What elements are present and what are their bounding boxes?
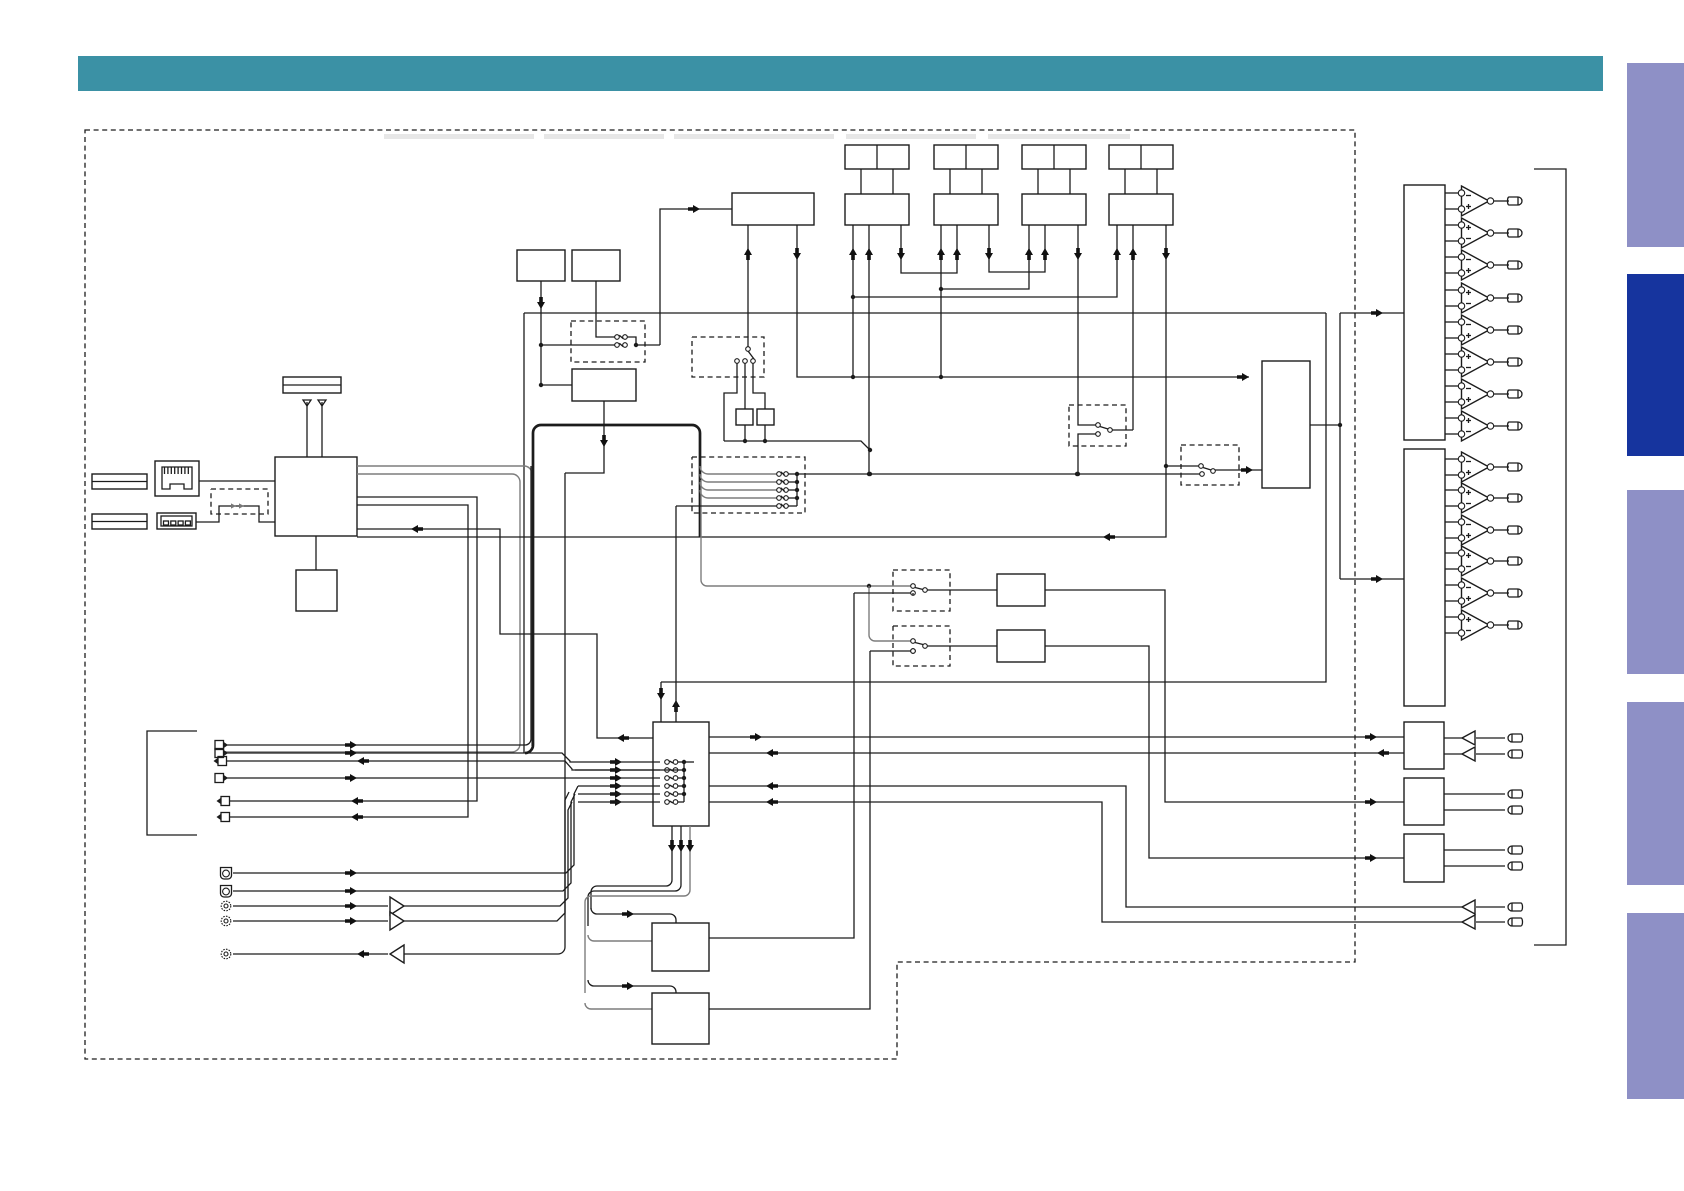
HDMI in 4 wire to AV switch (226, 777, 660, 779)
thick digital audio pipe (525, 425, 700, 753)
wire SoC to sub-module (315, 536, 317, 570)
G2 pin3 rec down to G3 pin2 (989, 225, 1045, 272)
small box B1 (736, 409, 753, 425)
speaker terminal y=530 (1508, 526, 1523, 534)
speaker amp channel y=265 (1445, 256, 1458, 258)
module G2 cassette pair box (934, 145, 998, 169)
main bus top line (524, 312, 1326, 314)
gray feed into box P (588, 935, 652, 941)
G3 pin3 down to S3 (1077, 225, 1079, 423)
SoC HDMI out2 wire (229, 505, 468, 817)
SW-B output to DAC2 (927, 645, 997, 647)
analog in row 2 triangle (1462, 915, 1475, 929)
X2 outputs (1444, 793, 1505, 795)
gray drop to SW-B (869, 586, 913, 641)
matrix row 5 from AV switch riser (676, 505, 777, 507)
amp feed riser (1339, 313, 1341, 579)
S3 contact A wire (1078, 423, 1096, 425)
S2 output rail with diagonal (724, 441, 870, 452)
SoC gray out 2 (225, 474, 520, 752)
analog in row 1 terminal (1508, 903, 1523, 911)
DAC1 output wire (1045, 590, 1404, 802)
X1 triangle out top (1462, 731, 1475, 745)
faint greeked caption (384, 134, 1130, 139)
coax in 1 connector (221, 901, 231, 911)
analog in row 2 terminal (1508, 918, 1523, 926)
junction REC line at G1 (851, 375, 855, 379)
speaker terminal y=467 (1508, 463, 1523, 471)
bus left drop (523, 313, 525, 753)
feed into box Q (588, 980, 676, 993)
dashed switch box SW-B (893, 626, 950, 666)
module G3 connector stubs (1037, 169, 1039, 194)
HDMI out 3 connector (218, 757, 227, 766)
pipe branch to monitor line (699, 460, 701, 537)
selector box M (1262, 361, 1310, 488)
wire RJ45 to SoC (199, 480, 275, 482)
HDMI in 1 connector (215, 741, 224, 750)
pipe branch to DAC selects (701, 480, 913, 586)
HDMI in 2 connector (215, 749, 224, 758)
USB port connector (157, 513, 196, 529)
HDMI out 3 wire from trunk (226, 761, 678, 770)
S2 pivot and blade (746, 347, 751, 352)
B1 to rail (744, 425, 746, 441)
dashed switch box S4 (1181, 445, 1239, 485)
sidebar tab 5 (1627, 913, 1684, 1099)
speaker terminal y=498 (1508, 494, 1523, 502)
feed into box P (591, 908, 676, 923)
DSP pin up from S2 (747, 225, 749, 349)
dashed switch box S3 (1069, 405, 1126, 446)
S2 contact1 wire stepped (724, 363, 737, 441)
G1 pin1 riser (play L) (852, 225, 854, 377)
module G4 connector stubs (1124, 169, 1126, 194)
amp1 feed (1340, 312, 1404, 314)
optical in 1 wire (233, 786, 578, 873)
zone out box X1 (1404, 722, 1444, 769)
antenna bar box (283, 377, 341, 393)
G4 pin2 riser from S3 (1132, 225, 1134, 430)
box M output to amp feeds (1310, 424, 1340, 426)
dashed switch box S1 (571, 321, 645, 362)
wire USB to SoC stepped (196, 506, 275, 522)
junction W1-lower box (539, 383, 543, 387)
speaker amp channel y=201 (1445, 192, 1458, 194)
speaker bracket (1534, 169, 1566, 945)
X1 terminal top (1508, 734, 1523, 742)
SW-A contacts (911, 584, 916, 589)
speaker amp channel y=426 (1445, 417, 1458, 419)
SoC gray out 1 (357, 466, 532, 746)
zone return riser B (870, 650, 911, 652)
coax in 2 connector (221, 916, 231, 926)
AV switch input right 3 (709, 802, 1462, 922)
main SoC box (275, 457, 357, 536)
dashed isolator box (211, 489, 268, 514)
antenna symbol left (303, 400, 311, 406)
riser to DSP input (660, 209, 732, 345)
speaker amp channel y=593 (1445, 584, 1458, 586)
DAC2 box (997, 630, 1045, 662)
module G2 connector stubs (949, 169, 951, 194)
wire W1 down with arrow (540, 281, 542, 385)
input group bracket (147, 731, 197, 835)
speaker amp channel y=467 (1445, 458, 1458, 460)
audio out connector (221, 949, 231, 959)
G1 pin3 rec down to G2 (901, 225, 957, 273)
matrix collector (796, 474, 798, 506)
S2 contact3 wire stepped to box B2 (753, 363, 765, 409)
SW-A output to DAC1 (927, 589, 997, 591)
power amp block 2 (1404, 449, 1445, 706)
matrix row 3 (700, 482, 777, 490)
speaker terminal y=265 (1508, 261, 1523, 269)
module G3 cassette pair box (1022, 145, 1086, 169)
speaker terminal y=233 (1508, 229, 1523, 237)
dashed switch box SW-A (893, 570, 950, 611)
speaker amp channel y=498 (1445, 489, 1458, 491)
HDMI out main connector (221, 797, 230, 806)
module G2 main box (934, 194, 998, 225)
SW-B contacts (911, 639, 916, 644)
SoC HDMI out1 wire (229, 497, 477, 801)
box Q (652, 993, 709, 1044)
S4 output to box M (1215, 469, 1262, 471)
B2 to rail (764, 425, 766, 441)
S2 contact2 wire to box B1 (744, 363, 746, 409)
speaker terminal y=561 (1508, 557, 1523, 565)
sidebar tab 1 (1627, 63, 1684, 247)
analog in row 1 triangle (1462, 900, 1475, 914)
S3 output to G4 (1112, 429, 1133, 431)
G2 pin1 riser (940, 225, 942, 377)
sidebar tab 2 (active) (1627, 274, 1684, 456)
S1 row1 tail to junction (627, 337, 636, 345)
bus drop to monitor loop (661, 313, 1326, 682)
speaker terminal y=426 (1508, 422, 1523, 430)
bar connector top-left (92, 474, 147, 489)
bar connector bottom-left (92, 514, 147, 529)
AV switch riser to matrix (675, 506, 677, 722)
S3 blade (1100, 427, 1108, 430)
DAC1 box (997, 574, 1045, 606)
matrix row 2 (700, 474, 777, 482)
sub-module box below SoC (296, 570, 337, 611)
module G1 cassette pair box (845, 145, 909, 169)
optical in 1 connector (221, 868, 232, 880)
sidebar tab 3 (1627, 490, 1684, 674)
speaker amp channel y=330 (1445, 321, 1458, 323)
audio out wire with buffer (233, 953, 388, 955)
S1 switch row 2 contacts (615, 343, 620, 348)
fan arrows into AV switch (610, 758, 622, 766)
HDMI in 2 wire to trunk (226, 753, 575, 762)
speaker terminal y=330 (1508, 326, 1523, 334)
speaker amp channel y=298 (1445, 289, 1458, 291)
S1 switch row 1 contacts (615, 335, 620, 340)
AV switch internal selector (665, 760, 670, 765)
AV switch input right 1 (709, 752, 1404, 754)
antenna symbol right (318, 400, 326, 406)
sidebar tab 4 (1627, 702, 1684, 885)
AV switch output right top (709, 736, 1404, 738)
speaker terminal y=362 (1508, 358, 1523, 366)
G1 feed branch to G4 pin1 (853, 225, 1117, 297)
zone return riser A (912, 593, 914, 595)
sub out box X3 (1404, 834, 1444, 882)
AV switch box (653, 722, 709, 826)
power amp block 1 (1404, 185, 1445, 440)
aux box input from W1 line (541, 384, 572, 386)
HDMI in 4 connector (215, 774, 224, 783)
module G1 main box (845, 194, 909, 225)
speaker amp channel y=233 (1445, 224, 1458, 226)
S3 contact B wire (1078, 434, 1096, 474)
speaker amp channel y=530 (1445, 521, 1458, 523)
junction W1-S1 row (539, 343, 543, 347)
S4 input wire from G4 junction (1166, 465, 1199, 467)
G4 pin3 down to monitor line (700, 225, 1166, 537)
speaker terminal y=593 (1508, 589, 1523, 597)
amp2 feed (1340, 578, 1404, 580)
optical in 2 connector (221, 886, 232, 898)
module G1 connector stubs (860, 169, 862, 194)
S1 output to DSP riser (638, 344, 660, 346)
speaker amp channel y=625 (1445, 616, 1458, 618)
DAC2 output wire (1045, 646, 1404, 858)
HDMI out zone connector (221, 813, 230, 822)
small box B2 (757, 409, 774, 425)
AV switch input right 2 (709, 786, 1462, 907)
bus from matrix collector (797, 473, 1200, 475)
S1 row2 wire from W1 junction (543, 344, 615, 346)
speaker terminal y=298 (1508, 294, 1523, 302)
SoC return from AV switch (357, 529, 653, 738)
SoC monitor line start (357, 536, 700, 538)
box M input arrow from REC bus (853, 376, 1249, 378)
DSP box (732, 193, 814, 225)
dashed switch box S2 (692, 337, 764, 377)
teal header bar (78, 56, 1603, 91)
module box W1 (517, 250, 565, 281)
G1 pin2 riser to bus (868, 225, 870, 474)
fan wires into AV switch (575, 761, 660, 763)
X3 outputs (1444, 849, 1505, 851)
X1 triangle out bottom (1462, 747, 1475, 761)
speaker terminal y=394 (1508, 390, 1523, 398)
S2 contacts (735, 359, 740, 364)
speaker terminal y=201 (1508, 197, 1523, 205)
aux processor box (572, 369, 636, 401)
speaker amp channel y=394 (1445, 385, 1458, 387)
module G4 main box (1109, 194, 1173, 225)
optical in 2 wire (233, 794, 575, 891)
AV switch bottom outputs (591, 826, 672, 909)
coax in 2 wire with buffer (233, 920, 388, 922)
monitor loop stubs into AV switch (660, 682, 662, 722)
matrix row 1 (700, 466, 777, 474)
module box W2 (572, 250, 620, 281)
G2 feed branch to G3 pin1 (941, 225, 1029, 289)
box P (652, 923, 709, 971)
speaker amp channel y=561 (1445, 552, 1458, 554)
S4 blade (1203, 468, 1211, 471)
S4 contact B end of bus (1200, 472, 1205, 477)
speaker terminal y=625 (1508, 621, 1523, 629)
X1 terminal bottom (1508, 750, 1523, 758)
ethernet RJ45 jack (155, 461, 199, 496)
wire W2 down to S1 (596, 281, 616, 337)
dashed matrix box (692, 457, 805, 513)
speaker amp channel y=362 (1445, 353, 1458, 355)
module G4 cassette pair box (1109, 145, 1173, 169)
coax in 1 wire with buffer (233, 905, 388, 907)
gray feed into box Q (585, 1003, 652, 1009)
main dashed border (85, 130, 1355, 1059)
matrix row 4 (700, 490, 777, 498)
DSP pin down REC (797, 225, 853, 377)
pre out box X2 (1404, 778, 1444, 825)
module G3 main box (1022, 194, 1086, 225)
